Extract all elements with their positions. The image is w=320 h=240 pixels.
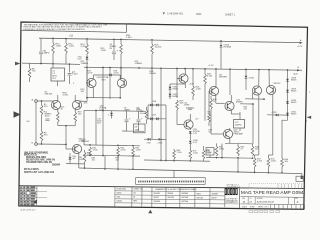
node feedback x90 [89,144,91,146]
transistor Q3 [87,78,96,87]
svg-text:1,800: 1,800 [56,46,62,48]
resistor R13 [86,44,89,54]
wire C4 bottom lead [57,81,59,86]
node ground x254 [254,172,256,174]
node row x252 [252,157,254,159]
svg-text:0094: 0094 [196,13,202,16]
svg-text:IN456: IN456 [291,91,297,93]
revision block grid [19,186,37,206]
node bus x66 [65,38,67,40]
node ground x84 [84,167,86,169]
wire CR10 to R37 [189,143,191,150]
zener CR16 [245,76,248,78]
wire R60 to ground [281,167,283,173]
transistor Q9 [223,129,232,138]
node mid bus x230 [229,68,231,70]
diode CR6 [150,104,152,107]
node mid bus x289 [287,69,289,71]
resistor R36 drop [173,149,175,150]
svg-text:2N3694: 2N3694 [154,201,161,203]
wire Q1 collector [57,95,59,101]
svg-text:68,000: 68,000 [150,73,157,75]
node x166 net B [165,160,167,162]
node lower x41.5 [41,143,43,145]
svg-text:USED ON: USED ON [134,189,144,191]
svg-text:4,700: 4,700 [207,76,213,78]
svg-text:2,200: 2,200 [207,152,212,154]
svg-text:2N1132: 2N1132 [274,83,282,85]
svg-text:IN64: IN64 [197,193,201,195]
diode CR14 [220,45,223,47]
node bus x152 [151,39,153,41]
svg-text:PWR AMP: PWR AMP [234,132,244,135]
svg-text:4,700: 4,700 [257,161,263,163]
svg-text:MAG TAPE READ AMP G094: MAG TAPE READ AMP G094 [241,190,304,195]
node input x41.5 [41,100,43,102]
node mid bus x246 [245,69,247,71]
resistor R36 [173,150,176,159]
wire feedback top row [84,144,140,147]
wire Q11 emitter jog [268,154,272,156]
svg-text:7,500: 7,500 [177,152,183,154]
svg-text:TRANSISTOR & DIODE CONVERSION: TRANSISTOR & DIODE CONVERSION CHART [155,188,198,191]
wire x87 column [86,54,88,102]
mid bus wire [84,67,302,70]
svg-text:NUMBER: NUMBER [257,198,263,200]
wire R13 drop [86,39,88,44]
svg-text:35MFD: 35MFD [236,102,243,104]
wire Q7 emitter [189,128,191,130]
wire Q9 emitter drop [221,144,223,158]
wire CR4 top [69,153,71,157]
node mid bus x139 [138,67,140,69]
svg-text:IN456: IN456 [173,96,179,98]
svg-text:1,000: 1,000 [126,37,132,39]
node emitter join [65,125,67,127]
svg-text:. . .: . . . [295,212,298,214]
wire base drop from lower run [65,144,67,149]
bottom centering mark [148,210,152,214]
wire x152 gate column [151,68,153,139]
resistor R25 [151,44,154,54]
wire x103 feedback drop [102,111,104,156]
resistor R28 drop [204,69,206,74]
node lower row x90 [89,154,91,156]
transistor Q1 [51,100,60,109]
capacitor C2 [46,118,50,120]
wire x289 diode column [287,70,289,120]
node emitter row x121 [119,97,121,99]
node bus x53 [52,38,54,40]
input terminal J1-A [35,100,38,103]
svg-text:IN759A: IN759A [182,200,189,203]
wire Q11 collector stub [268,80,270,87]
svg-text:2N1305: 2N1305 [45,94,53,96]
wire cap join row [122,130,144,132]
wire terminal link [35,102,37,142]
node bus x87 [86,38,88,40]
wire Q5 collector stub [184,69,186,75]
resistor R14 [120,44,123,54]
wire Q12 base [66,148,75,150]
node bus x221 [220,40,222,42]
title block revisions strip [249,183,305,188]
input arrow upper left [15,62,20,66]
transistor Q8 [225,101,234,110]
svg-text:10%: 10% [84,103,88,105]
wire Q11 base row [240,103,253,105]
resistor R47 [253,158,256,167]
node row x238 [237,157,239,159]
svg-text:IN MODEL: IN MODEL [117,189,128,191]
zener CR5 [111,111,113,113]
node ground x268 [268,172,270,174]
svg-text:946 A: 946 A [117,200,123,203]
wire Q11 emitter column [272,94,274,155]
wire Q5 emitter [184,82,186,88]
node lower run x66 [65,144,67,146]
capacitor C9 [138,111,140,119]
used-on table grid [115,187,152,207]
title block second row rule [241,196,305,199]
wire R38 leads [203,146,205,150]
diode CR6B [156,104,158,107]
revision block entries [20,187,47,206]
wire x216 to Q6 collector [215,69,217,88]
wire feedback lower row [84,154,140,157]
svg-text:.5MFD: .5MFD [124,109,131,111]
module box 2N1305 [134,124,146,133]
wire CR16 drop [245,69,247,75]
resistor R37 [189,150,192,159]
svg-text:4,700: 4,700 [114,73,120,75]
capacitor C8 [126,111,128,119]
node emitter row x87 [86,97,88,99]
wire net B [144,160,210,161]
resistor R31 [89,147,92,156]
svg-text:SHEET 1 OF 1: SHEET 1 OF 1 [258,207,269,209]
top margin revision triangle [163,12,165,14]
border frame [19,22,308,209]
wire CR14 to rail [220,48,222,69]
wire R15 to lower run [57,122,59,126]
wire x161 long column [160,68,162,160]
svg-text:9.1V: 9.1V [193,133,198,135]
node lower row x133 [132,155,134,157]
resistor R45 [237,144,239,146]
svg-text:10,000: 10,000 [155,47,162,49]
wire R47 to ground [254,167,256,172]
wire input to Q1 base [37,100,54,102]
node ground x133 [132,168,134,170]
wire Q4 collector [119,75,121,80]
node bus x121 [120,39,122,41]
svg-text:1,500: 1,500 [193,153,199,155]
svg-text:4,700: 4,700 [81,46,87,48]
capacitor C12 box [234,120,245,129]
mid bus right terminal [297,69,300,71]
node x161 net B [160,160,162,162]
node row x222 [221,157,223,159]
svg-text:4,700: 4,700 [88,73,94,75]
node mid bus x161 [160,67,162,69]
node mid bus x152 [151,67,153,69]
wire Q10 base row [245,98,264,100]
wire C1 to rail [40,54,42,64]
wire R10 drop [52,38,54,43]
wire capacitor C1 drop [40,38,42,51]
resistor R30 [84,150,86,152]
node mid bus x121 [120,67,122,69]
wire Q3 emitter [92,87,94,98]
wire x148 gate column [147,105,149,119]
wire x177 upper [176,69,178,99]
svg-text:EXPRESSLY GIVEN BY SPECIFIC CO: EXPRESSLY GIVEN BY SPECIFIC CONTRACT AUT… [24,28,86,31]
node x87 base [86,82,88,84]
wire Q5 base [177,78,181,80]
svg-text:4,700: 4,700 [121,150,127,152]
wire x166 to net B [165,140,167,161]
node R36 net B [173,160,175,162]
wire Q8 emitter [230,110,232,114]
resistor R12 [65,43,68,54]
svg-text:DRIVER: DRIVER [219,77,227,79]
wire x84 column [83,110,85,145]
wire C6 tail [113,54,115,60]
wire R41 leads [208,98,210,114]
svg-text:2N1132: 2N1132 [168,197,174,199]
zener CR9 [189,131,192,133]
node base row x264 [263,98,265,100]
resistor R38 [202,150,205,159]
wire R50 to ground [267,167,269,173]
wire C12 bottom lead [239,128,241,131]
svg-text:1.8MEG: 1.8MEG [81,63,89,65]
wire mid row [84,110,146,111]
wire Q12 emitter [78,153,80,168]
wire x177 to Q7 base [176,110,178,125]
svg-text:IN456: IN456 [173,89,179,91]
resistor R29 [176,100,179,110]
svg-text:TRANSISTORS ARE 2N: TRANSISTORS ARE 2N [26,161,52,164]
wire join to lower run [65,126,67,145]
wire R25 drop [151,40,153,44]
wire x121 column [120,54,122,79]
ground bus wire [79,168,302,174]
wire x258 Q10 collector [258,82,260,87]
wire row to ground drop [237,158,239,172]
wire R14 drop [120,39,122,44]
svg-text:5,600: 5,600 [271,161,277,163]
wire gate bottom row [144,138,166,140]
wire Q2 emitter [74,109,76,112]
title block logo squares [225,188,238,195]
svg-text:IN456: IN456 [291,80,297,82]
wire Q10 emitter column [258,94,260,155]
wire Q2 base from divider [79,100,87,103]
svg-text:2N1305: 2N1305 [154,193,161,195]
zener CR4 [69,157,72,159]
resistor R40 [210,99,213,109]
node output x289 [287,114,289,116]
transistor Q5 [179,74,188,83]
svg-text:.1MFD: .1MFD [184,105,191,107]
diode CR11 [159,138,161,141]
resistor R15 [57,112,60,122]
wire C6 drop [113,39,115,51]
node mid bus x185 [184,68,186,70]
diode CR12 [169,87,172,89]
+12V bus wire [39,38,301,42]
wire R28 column [204,84,206,121]
node mid bus x87 [86,66,88,68]
wire R10 to rail [52,54,54,64]
title block third row rule [241,203,305,206]
sheet tick boxes [270,205,304,209]
wire Q7 collector stub [189,114,191,121]
wire x152 column upper [151,54,153,68]
node feedback x118 [117,145,119,147]
svg-text:CR16: CR16 [249,78,255,80]
resistor R2 [40,131,43,141]
svg-text:2N3694: 2N3694 [212,193,219,195]
wire x110 column [109,68,111,99]
svg-text:1,000: 1,000 [79,159,85,161]
node base row x253 [252,103,254,105]
wire Q1 emitter [57,109,59,112]
diode CR20 [286,101,289,103]
wire R12 to rail [65,54,67,64]
wire R30 to ground [84,162,86,168]
bottom margin microfilm marks [249,211,280,213]
wire Q6 emitter to Q8 base [215,95,217,104]
resistor R28 [204,74,207,84]
wire R1-R2 link [41,115,43,131]
wire CR6 link [148,104,166,106]
svg-text:SHEET 1: SHEET 1 [225,14,236,17]
input terminal J1-B [35,143,38,146]
diode CR7B [156,117,158,120]
wire x87 lower segment [86,67,88,83]
svg-text:2N404: 2N404 [168,193,174,195]
wire Q5 emitter to diode chain [170,83,185,85]
wire net column to strip [173,170,175,177]
node feedback x133 [132,145,134,147]
output arrow [307,116,312,119]
capacitor C1 [39,51,43,53]
svg-text:IN753A: IN753A [182,196,189,199]
wire Q8 emitter join [231,113,240,115]
node row x216 [216,157,218,159]
svg-text:+12V: +12V [297,46,303,48]
conversion chart grid [152,187,225,207]
diode CR22 [276,114,278,117]
wire C4 top lead [52,64,54,68]
wire CR4 bottom [69,160,71,164]
node R37 net B [189,160,191,162]
wire R27 leads [146,107,148,110]
zone reference box [296,176,303,181]
transistor Q6 [209,86,218,95]
wire C9 tail [138,122,140,131]
node ground x118 [117,168,119,170]
zener CR2 [86,57,89,59]
svg-text:10%: 10% [97,122,101,124]
transistor Q10 [252,86,261,95]
svg-text:IN459: IN459 [291,102,297,104]
diode CR19 [286,90,289,92]
wire x133 ground drop [132,156,134,169]
wire x253 column from driver [252,104,254,144]
wire CR16 tail [245,78,247,90]
svg-text:10,000: 10,000 [140,113,147,115]
node ground x238 [237,171,239,173]
node rail x41 [40,63,42,65]
svg-text:6.2V: 6.2V [193,142,198,144]
resistor R42 [216,143,218,146]
general notes box [21,22,127,32]
resistor R35 [132,147,135,156]
zener CR10 [189,141,192,143]
capacitor C10 [186,107,194,109]
resistor R19 [74,112,77,122]
wire x105 ground drop [104,156,106,169]
wire Q3 collector [92,75,94,80]
svg-text:35MFD: 35MFD [235,124,242,126]
node bus x114 [113,38,115,40]
wire x118 ground drop [117,156,119,169]
node rail x66 [69,63,71,65]
transistor Q4 [117,78,126,87]
title block divider logo/title [238,188,240,209]
node mid bus x269 [268,69,270,71]
svg-text:IN756A: IN756A [224,46,232,49]
wire R19 to join [74,122,76,126]
resistor R41 [208,114,211,122]
wire output row [267,114,288,116]
node ground x105 [104,168,106,170]
transistor Q12 [72,144,81,153]
wire R37 to net B [189,159,191,161]
wire x166 gate column [165,105,167,140]
svg-text:A-SK-0094-010-01: A-SK-0094-010-01 [257,201,275,204]
wire Q10 emitter jog [255,154,259,156]
wire R2 to lower wire [41,141,43,144]
resistor R32 [117,147,120,156]
svg-text:1,000: 1,000 [101,50,107,52]
svg-text:IN759: IN759 [212,197,217,199]
svg-text:1.8MEG: 1.8MEG [135,63,143,65]
node ground x282 [281,172,283,174]
wire C8 tail [126,122,128,131]
wire diode column to R60 [282,119,288,121]
svg-text:IN459: IN459 [291,114,297,116]
wire R6 tail [29,78,31,82]
input arrow main [14,111,21,117]
company underline [225,203,239,205]
wire x121 to Q4 [120,68,122,79]
svg-text:2N3694: 2N3694 [52,163,61,166]
resistor R50 [267,158,270,167]
svg-text:4,700: 4,700 [63,95,69,97]
wire Q8 collector [230,95,232,103]
svg-text:SIZE: SIZE [242,198,245,200]
capacitor C3 [69,64,71,72]
node lower row x103 [102,155,104,157]
svg-text:9.1V: 9.1V [102,79,107,81]
wire x103 column [102,68,104,111]
resistor R6 drop from rail [29,63,31,68]
